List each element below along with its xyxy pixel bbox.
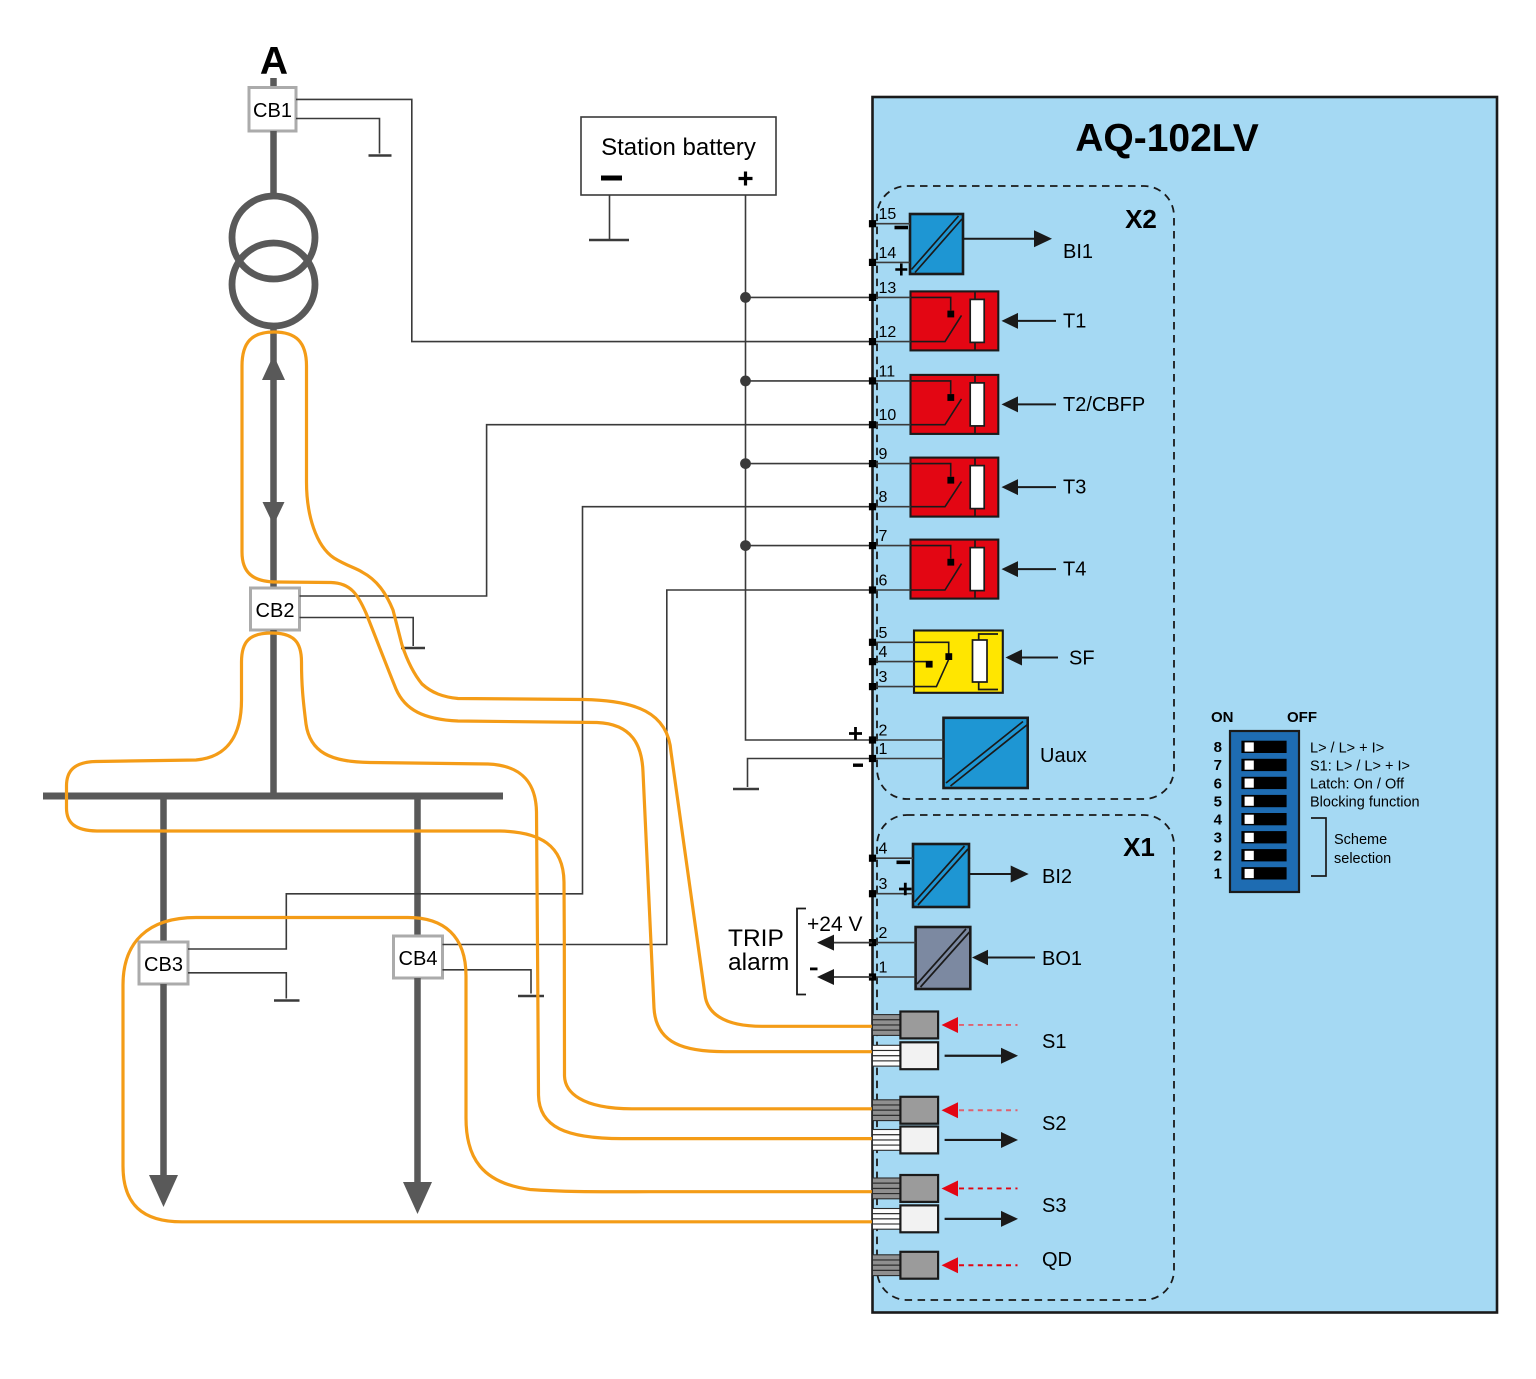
svg-text:9: 9 — [879, 446, 888, 463]
svg-text:S2: S2 — [1042, 1113, 1066, 1135]
wire plus rail to relay terminal — [746, 463, 873, 465]
svg-text:S1: S1 — [1042, 1031, 1066, 1053]
arrow red dashed into QD — [942, 1257, 1018, 1273]
wire terminal to T3 bottom — [872, 506, 911, 508]
breaker CB4 — [394, 936, 443, 978]
wire CB2 to busbar — [270, 630, 277, 796]
wire terminal to T1 bottom — [872, 341, 911, 343]
svg-text:10: 10 — [879, 407, 897, 424]
wire busbar to CB3 — [160, 796, 167, 942]
arrow BI2 output — [969, 873, 1012, 875]
arrow BO1 input — [972, 950, 988, 965]
arrow red dashed into S3 — [942, 1180, 1018, 1196]
svg-text:CB3: CB3 — [144, 954, 183, 976]
pin terminal 3 — [869, 890, 876, 897]
arrow red dashed into S1 — [942, 1017, 1018, 1033]
wire plus rail to relay terminal — [746, 380, 873, 382]
connector S1 output plug (white) — [872, 1042, 938, 1069]
svg-text:Station battery: Station battery — [601, 134, 756, 161]
connector QD sensor plug (gray) — [872, 1252, 938, 1279]
svg-text:3: 3 — [1214, 830, 1222, 847]
svg-text:BO1: BO1 — [1042, 948, 1082, 970]
wire orange sensor loop around CB3+CB4 feeders to S3 — [123, 918, 872, 1222]
relay output T1 (trip contact) — [911, 291, 999, 350]
svg-text:selection: selection — [1334, 851, 1391, 867]
wire CB3 trip circuit to terminal X2:8 — [188, 507, 872, 949]
ground CB4 circuit — [518, 995, 544, 997]
svg-text:alarm: alarm — [728, 949, 789, 976]
wire orange sensor loop B (around feeder below CB2) + busbar wrap to S2 — [67, 633, 873, 1139]
polarity minus BI2 — [897, 861, 911, 865]
wire orange sensor loop A (around feeder above CB2) to S1 — [242, 332, 872, 1052]
pin terminal 11 — [869, 377, 876, 384]
polarity minus BI1 — [895, 226, 909, 230]
svg-text:6: 6 — [1214, 775, 1222, 792]
wire terminal X1:1 to BO1 — [872, 976, 916, 978]
svg-text:Scheme: Scheme — [1334, 832, 1387, 848]
wire terminal X1:2 to BO1 — [872, 942, 916, 944]
wire bus A to CB1 — [270, 78, 277, 88]
binary input BI2 module — [913, 844, 969, 907]
relay output T2 (trip contact) — [911, 375, 999, 434]
svg-text:BI1: BI1 — [1063, 241, 1093, 263]
pin terminal 3 — [869, 683, 876, 690]
connector S1 sensor plug (gray) — [872, 1012, 938, 1039]
svg-text:11: 11 — [879, 363, 896, 380]
svg-text:S1: L> / L> + I>: S1: L> / L> + I> — [1310, 759, 1410, 775]
connector group X1 boundary — [877, 815, 1174, 1300]
svg-text:15: 15 — [879, 206, 897, 223]
arrow red dashed into S2 — [942, 1102, 1018, 1118]
pin terminal 5 — [869, 639, 876, 646]
connector S2 sensor plug (gray) — [872, 1097, 938, 1124]
wire battery plus rail — [746, 195, 873, 740]
svg-text:4: 4 — [879, 644, 888, 661]
arrow T2 trip input — [1002, 396, 1019, 412]
wire CB3 feeder with arrow — [160, 984, 167, 1178]
svg-text:2: 2 — [879, 925, 888, 942]
node battery plus junction y=297.4 — [740, 292, 751, 303]
svg-text:L> / L> + I>: L> / L> + I> — [1310, 741, 1384, 757]
connector S2 output plug (white) — [872, 1127, 938, 1154]
pin terminal 4 — [869, 855, 876, 862]
pin terminal 14 — [869, 259, 876, 266]
battery: Station battery box — [581, 117, 776, 195]
busbar — [43, 793, 503, 800]
ground Uaux circuit — [733, 788, 759, 790]
power supply Uaux module — [944, 718, 1028, 788]
svg-text:CB1: CB1 — [253, 100, 292, 122]
svg-text:T2/CBFP: T2/CBFP — [1063, 394, 1145, 416]
arrow T4 trip input — [1002, 561, 1019, 577]
wire CB4 trip circuit to terminal X2:6 — [443, 590, 873, 945]
pin terminal 4 — [869, 658, 876, 665]
arrow up (power flow) — [262, 355, 285, 380]
svg-text:5: 5 — [1214, 793, 1222, 810]
DIP switch block — [1230, 731, 1299, 892]
relay output T3 (trip contact) — [911, 458, 999, 517]
node battery plus junction y=463.6 — [740, 458, 751, 469]
pin terminal 7 — [869, 542, 876, 549]
svg-text:CB2: CB2 — [256, 600, 295, 622]
wire CB3 to earth — [188, 973, 286, 999]
label minus — [810, 968, 818, 971]
arrow T1 trip input — [1002, 313, 1019, 329]
wire terminal 5 to SF — [872, 641, 914, 643]
svg-text:2: 2 — [1214, 848, 1222, 865]
pin terminal 2 — [869, 736, 876, 743]
svg-text:1: 1 — [879, 741, 888, 758]
wire CB4 to earth — [443, 970, 532, 994]
ground CB1 circuit — [369, 154, 392, 156]
breaker CB3 — [139, 942, 188, 984]
polarity plus BI1 — [895, 264, 907, 276]
arrow BI1 output — [963, 238, 1036, 240]
connector S3 sensor plug (gray) — [872, 1175, 938, 1202]
svg-text:T4: T4 — [1063, 559, 1086, 581]
pin terminal 13 — [869, 294, 876, 301]
ground bar battery minus — [589, 239, 629, 241]
pin terminal 1 — [869, 755, 876, 762]
svg-text:AQ-102LV: AQ-102LV — [1075, 117, 1259, 160]
wire battery minus lead — [609, 195, 611, 240]
svg-text:X2: X2 — [1125, 204, 1157, 234]
svg-text:14: 14 — [879, 245, 897, 262]
arrow T3 trip input — [1002, 479, 1019, 495]
svg-text:1: 1 — [879, 960, 888, 977]
breaker CB2 — [251, 588, 300, 630]
wire CB2 to earth — [300, 618, 414, 647]
arrow down (power flow) — [263, 502, 285, 525]
pin terminal 10 — [869, 421, 876, 428]
svg-text:Blocking function: Blocking function — [1310, 795, 1420, 811]
svg-text:5: 5 — [879, 625, 888, 642]
arrow terminal X1:2 to +24V — [833, 942, 872, 944]
wire CB1 to transformer — [270, 131, 277, 196]
binary output BO1 module — [916, 927, 971, 989]
connector group X2 boundary — [877, 186, 1174, 799]
arrow S2 output — [945, 1132, 1018, 1148]
wire terminal to T4 top — [872, 545, 911, 547]
wire CB4 feeder with arrow — [414, 978, 421, 1185]
svg-text:OFF: OFF — [1287, 709, 1317, 726]
transformer (two windings) — [232, 196, 315, 279]
svg-text:2: 2 — [879, 723, 888, 740]
wire terminal X1:4 to BI2 — [872, 857, 913, 859]
wire terminal to T4 bottom — [872, 589, 911, 591]
ground CB3 circuit — [274, 999, 300, 1001]
svg-text:ON: ON — [1211, 709, 1234, 726]
wire terminal 2 to Uaux — [872, 739, 944, 741]
svg-text:4: 4 — [1214, 811, 1223, 828]
svg-text:SF: SF — [1069, 648, 1095, 670]
svg-text:T1: T1 — [1063, 310, 1086, 332]
svg-text:TRIP: TRIP — [728, 925, 784, 952]
svg-text:3: 3 — [879, 669, 888, 686]
arrow terminal X1:1 to alarm minus — [833, 976, 872, 978]
wire terminal to T3 top — [872, 463, 911, 465]
wire Uaux minus to earth — [748, 759, 873, 788]
polarity plus Uaux — [849, 727, 862, 740]
bracket scheme selection — [1311, 818, 1326, 876]
svg-text:13: 13 — [879, 280, 897, 297]
svg-text:8: 8 — [1214, 739, 1222, 756]
svg-text:3: 3 — [879, 876, 888, 893]
relay output SF (self supervision changeover contact) — [914, 631, 1003, 693]
wire CB1 to earth — [296, 119, 380, 154]
relay AQ-102LV body — [873, 97, 1498, 1313]
svg-text:1: 1 — [1214, 866, 1222, 883]
svg-text:X1: X1 — [1123, 832, 1155, 862]
wire terminal 4 to SF — [872, 661, 914, 663]
pin terminal 15 — [869, 220, 876, 227]
svg-text:6: 6 — [879, 573, 888, 590]
arrow SF input — [1006, 650, 1023, 666]
bracket TRIP alarm — [797, 909, 806, 995]
polarity plus BI2 — [899, 883, 912, 896]
svg-text:QD: QD — [1042, 1249, 1072, 1271]
svg-text:7: 7 — [879, 528, 888, 545]
wire terminal 15 to BI1 — [872, 223, 910, 225]
svg-text:CB4: CB4 — [399, 948, 438, 970]
pin terminal 8 — [869, 503, 876, 510]
pin terminal 2 — [869, 939, 876, 946]
svg-text:Uaux: Uaux — [1040, 745, 1087, 767]
wire CB2 trip circuit to terminal X2:10 — [300, 425, 873, 596]
svg-text:T3: T3 — [1063, 477, 1086, 499]
wire plus rail to relay terminal — [746, 296, 873, 298]
wire terminal 1 to Uaux — [872, 758, 944, 760]
arrow S3 output — [945, 1211, 1018, 1227]
wire terminal to T1 top — [872, 296, 911, 298]
arrow S1 output — [945, 1048, 1018, 1064]
svg-text:Latch: On / Off: Latch: On / Off — [1310, 777, 1405, 793]
svg-text:BI2: BI2 — [1042, 866, 1072, 888]
wire busbar to CB4 — [414, 796, 421, 936]
relay output T4 (trip contact) — [911, 540, 999, 599]
svg-text:7: 7 — [1214, 757, 1222, 774]
breaker CB1 — [249, 88, 296, 132]
svg-text:12: 12 — [879, 324, 897, 341]
wire terminal X1:3 to BI2 — [872, 893, 913, 895]
pin terminal 1 — [869, 973, 876, 980]
svg-text:4: 4 — [879, 841, 888, 858]
wire feeder transformer to CB2 — [270, 326, 277, 588]
wire terminal to T2 top — [872, 380, 911, 382]
wire terminal 14 to BI1 — [872, 261, 910, 263]
ground CB2 circuit — [401, 647, 425, 649]
pin terminal 12 — [869, 338, 876, 345]
node battery plus junction y=380.9 — [740, 376, 751, 387]
svg-text:+24 V: +24 V — [807, 913, 862, 936]
polarity minus Uaux — [853, 764, 863, 767]
node battery plus junction y=545.6 — [740, 540, 751, 551]
pin terminal 6 — [869, 586, 876, 593]
wire terminal 3 to SF — [872, 686, 914, 688]
wire terminal to T2 bottom — [872, 424, 911, 426]
wire CB1 trip circuit to terminal X2:12 — [296, 99, 872, 341]
binary input BI1 module — [910, 214, 963, 274]
pin terminal 9 — [869, 460, 876, 467]
svg-text:S3: S3 — [1042, 1195, 1066, 1217]
svg-text:A: A — [260, 40, 288, 83]
wire plus rail to relay terminal — [746, 545, 873, 547]
connector S3 output plug (white) — [872, 1205, 938, 1232]
svg-text:8: 8 — [879, 489, 888, 506]
